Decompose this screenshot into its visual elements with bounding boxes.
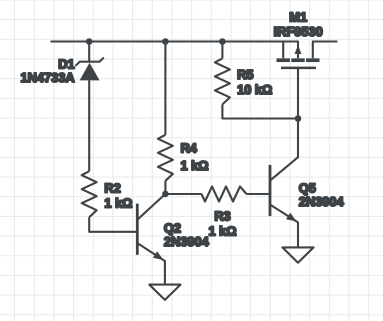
resistor R2 zigzag [82, 171, 97, 217]
transistor Q2 emitter diagonal and lead [138, 243, 165, 284]
svg-text:R3: R3 [214, 208, 230, 223]
svg-text:IRF9530: IRF9530 [274, 24, 323, 39]
wire: M1 gate lead down to node D [297, 69, 299, 119]
mosfet M1 channel bar 3 [306, 58, 319, 62]
wire: R5 bottom lead to node D wire [222, 104, 298, 118]
zener diode D1 anode triangle [80, 63, 100, 81]
mosfet M1 drain lead [313, 42, 338, 59]
ground (Q2 emitter) [149, 285, 180, 300]
svg-text:1 kΩ: 1 kΩ [181, 158, 209, 173]
transistor Q2 base bar [136, 204, 139, 255]
svg-text:1 kΩ: 1 kΩ [104, 195, 132, 210]
mosfet M1 body arrow (points up) [295, 45, 302, 54]
mosfet M1 channel bar 1 [277, 58, 290, 62]
node D: junction dot gate/R5/Q5 collector [295, 115, 302, 122]
wire: node E to R3 left lead [165, 193, 201, 195]
zener diode D1 lead from rail [88, 42, 90, 62]
wire: top positive rail from left end to M1 source/body bend [51, 42, 299, 59]
mosfet M1 channel bar 2 [291, 58, 304, 62]
transistor Q2 collector diagonal to node E [138, 194, 166, 219]
svg-text:2N3904: 2N3904 [164, 234, 210, 249]
wire: D1 anode down to R2 [88, 80, 90, 171]
mosfet M1 source stub [282, 42, 284, 59]
svg-text:R2: R2 [104, 181, 120, 196]
svg-text:1 kΩ: 1 kΩ [208, 224, 236, 239]
svg-text:1N4733A: 1N4733A [21, 70, 75, 85]
node E: junction dot R4/R3/Q2 collector [162, 191, 169, 198]
transistor Q5 collector lead and diagonal [271, 119, 299, 181]
svg-text:M1: M1 [289, 10, 307, 25]
svg-text:R5: R5 [237, 67, 253, 82]
ground (Q5 emitter) [282, 247, 313, 262]
transistor Q5 emitter diagonal and lead [271, 205, 299, 248]
mosfet M1 gate plate [281, 67, 316, 70]
resistor R5 zigzag [215, 58, 230, 104]
resistor R4 top lead from rail [164, 42, 166, 135]
wire: R3 right lead to Q5 base [247, 193, 271, 195]
resistor R5 top lead [221, 42, 223, 59]
node C: junction dot rail/R5 [219, 38, 226, 45]
wire: R4 bottom lead to node E [164, 181, 166, 194]
wire: R2 bottom lead to Q2 base [89, 217, 137, 232]
zener diode D1 cathode bar with zener tails [75, 58, 103, 66]
transistor Q5 emitter arrow [286, 213, 297, 222]
node B: junction dot rail/R4 [162, 38, 169, 45]
transistor Q2 emitter arrow [153, 251, 164, 260]
resistor R3 zigzag [202, 187, 247, 202]
resistor R4 zigzag [158, 135, 173, 181]
svg-text:2N3904: 2N3904 [299, 194, 345, 209]
transistor Q5 base bar [269, 165, 272, 216]
svg-text:R4: R4 [181, 141, 198, 156]
node A: junction dot rail/D1 [86, 38, 93, 45]
svg-text:10 kΩ: 10 kΩ [237, 82, 272, 97]
